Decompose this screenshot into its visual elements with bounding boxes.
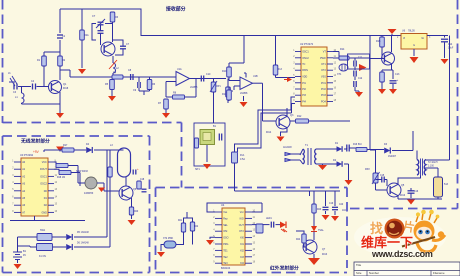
svg-text:C18: C18 [140, 179, 145, 181]
svg-text:RXIN: RXIN [302, 69, 308, 72]
svg-text:TC: TC [302, 63, 305, 66]
svg-text:OSC1: OSC1 [302, 51, 309, 54]
svg-text:SP1: SP1 [195, 168, 200, 171]
svg-text:C14: C14 [448, 44, 453, 46]
svg-text:C12: C12 [358, 78, 363, 80]
svg-text:C10: C10 [206, 73, 211, 76]
svg-text:R23: R23 [317, 209, 322, 211]
svg-text:R10: R10 [222, 70, 227, 73]
svg-text:R24: R24 [296, 239, 301, 241]
svg-text:R16 510: R16 510 [353, 144, 362, 146]
svg-text:U4: U4 [221, 203, 225, 207]
svg-text:PO2: PO2 [321, 88, 326, 91]
svg-text:OUT: OUT [239, 224, 245, 227]
svg-text:+: + [397, 78, 399, 82]
svg-text:OSC1: OSC1 [40, 175, 47, 178]
svg-text:找: 找 [370, 221, 383, 236]
svg-text:Title: Title [356, 263, 362, 267]
svg-text:433MHZ: 433MHZ [84, 192, 94, 195]
svg-text:OSI: OSI [223, 230, 227, 233]
svg-text:XT1: XT1 [337, 73, 342, 76]
svg-text:C19: C19 [329, 203, 334, 205]
svg-text:R11: R11 [222, 93, 227, 96]
svg-text:10uF: 10uF [448, 48, 454, 50]
svg-text:C15: C15 [380, 175, 385, 177]
svg-text:RP2: RP2 [365, 168, 370, 171]
svg-text:C16: C16 [414, 191, 419, 193]
svg-text:R13: R13 [278, 68, 283, 71]
svg-text:R12: R12 [297, 115, 302, 118]
svg-text:AC220V: AC220V [283, 146, 292, 149]
svg-text:T2 10mH: T2 10mH [428, 162, 438, 164]
svg-text:0.5A: 0.5A [240, 158, 245, 161]
svg-text:OSC2: OSC2 [40, 183, 47, 186]
svg-text:OT1: OT1 [321, 63, 326, 66]
svg-text:TE1: TE1 [223, 249, 228, 252]
svg-text:VCC: VCC [42, 161, 47, 164]
svg-text:+: + [137, 167, 139, 171]
svg-text:OSC2: OSC2 [302, 57, 309, 60]
svg-text:U2 PT2272: U2 PT2272 [300, 42, 314, 46]
svg-text:PWO: PWO [320, 57, 326, 60]
svg-text:9013: 9013 [322, 254, 328, 256]
svg-text:U1B: U1B [253, 75, 258, 78]
svg-text:KIO: KIO [240, 217, 244, 220]
svg-text:LED1: LED1 [266, 218, 272, 220]
svg-text:R14: R14 [340, 48, 345, 51]
svg-text:FU1: FU1 [240, 154, 245, 157]
svg-text:D5 1N4148: D5 1N4148 [77, 232, 89, 234]
svg-text:SEL: SEL [223, 224, 228, 227]
svg-text:78L05: 78L05 [408, 30, 415, 33]
svg-text:+9V: +9V [33, 150, 40, 154]
svg-text:Rep: Rep [223, 217, 228, 220]
svg-text:LM358: LM358 [240, 92, 248, 95]
svg-text:9V: 9V [23, 254, 26, 257]
svg-text:PRG: PRG [223, 243, 228, 246]
svg-text:U1A: U1A [177, 68, 182, 71]
svg-text:R22: R22 [194, 226, 199, 228]
svg-text:DOUT: DOUT [40, 168, 47, 171]
svg-text:1:100: 1:100 [428, 166, 434, 168]
svg-text:TSAL: TSAL [318, 229, 324, 232]
svg-text:OSO: OSO [223, 237, 228, 240]
svg-text:R21: R21 [178, 220, 183, 222]
svg-text:红外发射部分: 红外发射部分 [270, 265, 299, 272]
svg-text:无线发射部分: 无线发射部分 [20, 138, 50, 145]
svg-text:9014: 9014 [266, 132, 272, 134]
svg-text:RP1: RP1 [216, 85, 221, 88]
svg-text:C13: C13 [395, 73, 400, 76]
svg-text:SAW R433: SAW R433 [76, 170, 88, 173]
svg-text:OT2: OT2 [321, 69, 326, 72]
svg-text:GND: GND [41, 211, 47, 214]
svg-text:R2A: R2A [84, 34, 89, 37]
svg-text:PO4: PO4 [321, 101, 326, 104]
svg-text:SW1: SW1 [40, 229, 46, 232]
svg-text:U3 PT2262: U3 PT2262 [20, 153, 34, 157]
svg-text:9013: 9013 [400, 195, 406, 197]
svg-text:R15: R15 [376, 40, 381, 43]
svg-text:www.dzsc.com: www.dzsc.com [371, 249, 433, 259]
svg-text:OT2: OT2 [239, 230, 244, 233]
svg-text:K1 ON: K1 ON [39, 256, 46, 258]
svg-text:PO1: PO1 [321, 82, 326, 85]
svg-text:9018: 9018 [63, 88, 69, 90]
svg-text:TE2: TE2 [223, 256, 228, 259]
svg-text:R18 1M: R18 1M [57, 177, 65, 179]
svg-text:VDD: VDD [302, 76, 307, 79]
svg-text:1N4007: 1N4007 [388, 156, 397, 158]
svg-text:G: G [413, 44, 415, 47]
svg-text:513: 513 [444, 183, 449, 186]
svg-text:接收部分: 接收部分 [166, 6, 186, 13]
svg-text:Size: Size [356, 271, 362, 275]
svg-text:C20: C20 [339, 204, 344, 206]
svg-text:维库一下: 维库一下 [361, 235, 413, 250]
svg-text:Filename: Filename [433, 271, 445, 275]
svg-text:Number: Number [369, 271, 379, 275]
svg-text:LM358: LM358 [190, 86, 198, 89]
svg-text:R17: R17 [63, 144, 68, 147]
svg-text:VT: VT [323, 51, 327, 54]
svg-text:XT2 455K: XT2 455K [163, 238, 174, 240]
svg-text:CT: CT [92, 15, 96, 18]
svg-text:VSS: VSS [321, 76, 326, 79]
svg-text:PO3: PO3 [321, 94, 326, 97]
svg-text:BA5104: BA5104 [221, 266, 231, 270]
svg-text:TE3: TE3 [223, 262, 228, 265]
svg-text:D6 1N4148: D6 1N4148 [77, 243, 89, 245]
svg-text:R20: R20 [134, 211, 139, 213]
